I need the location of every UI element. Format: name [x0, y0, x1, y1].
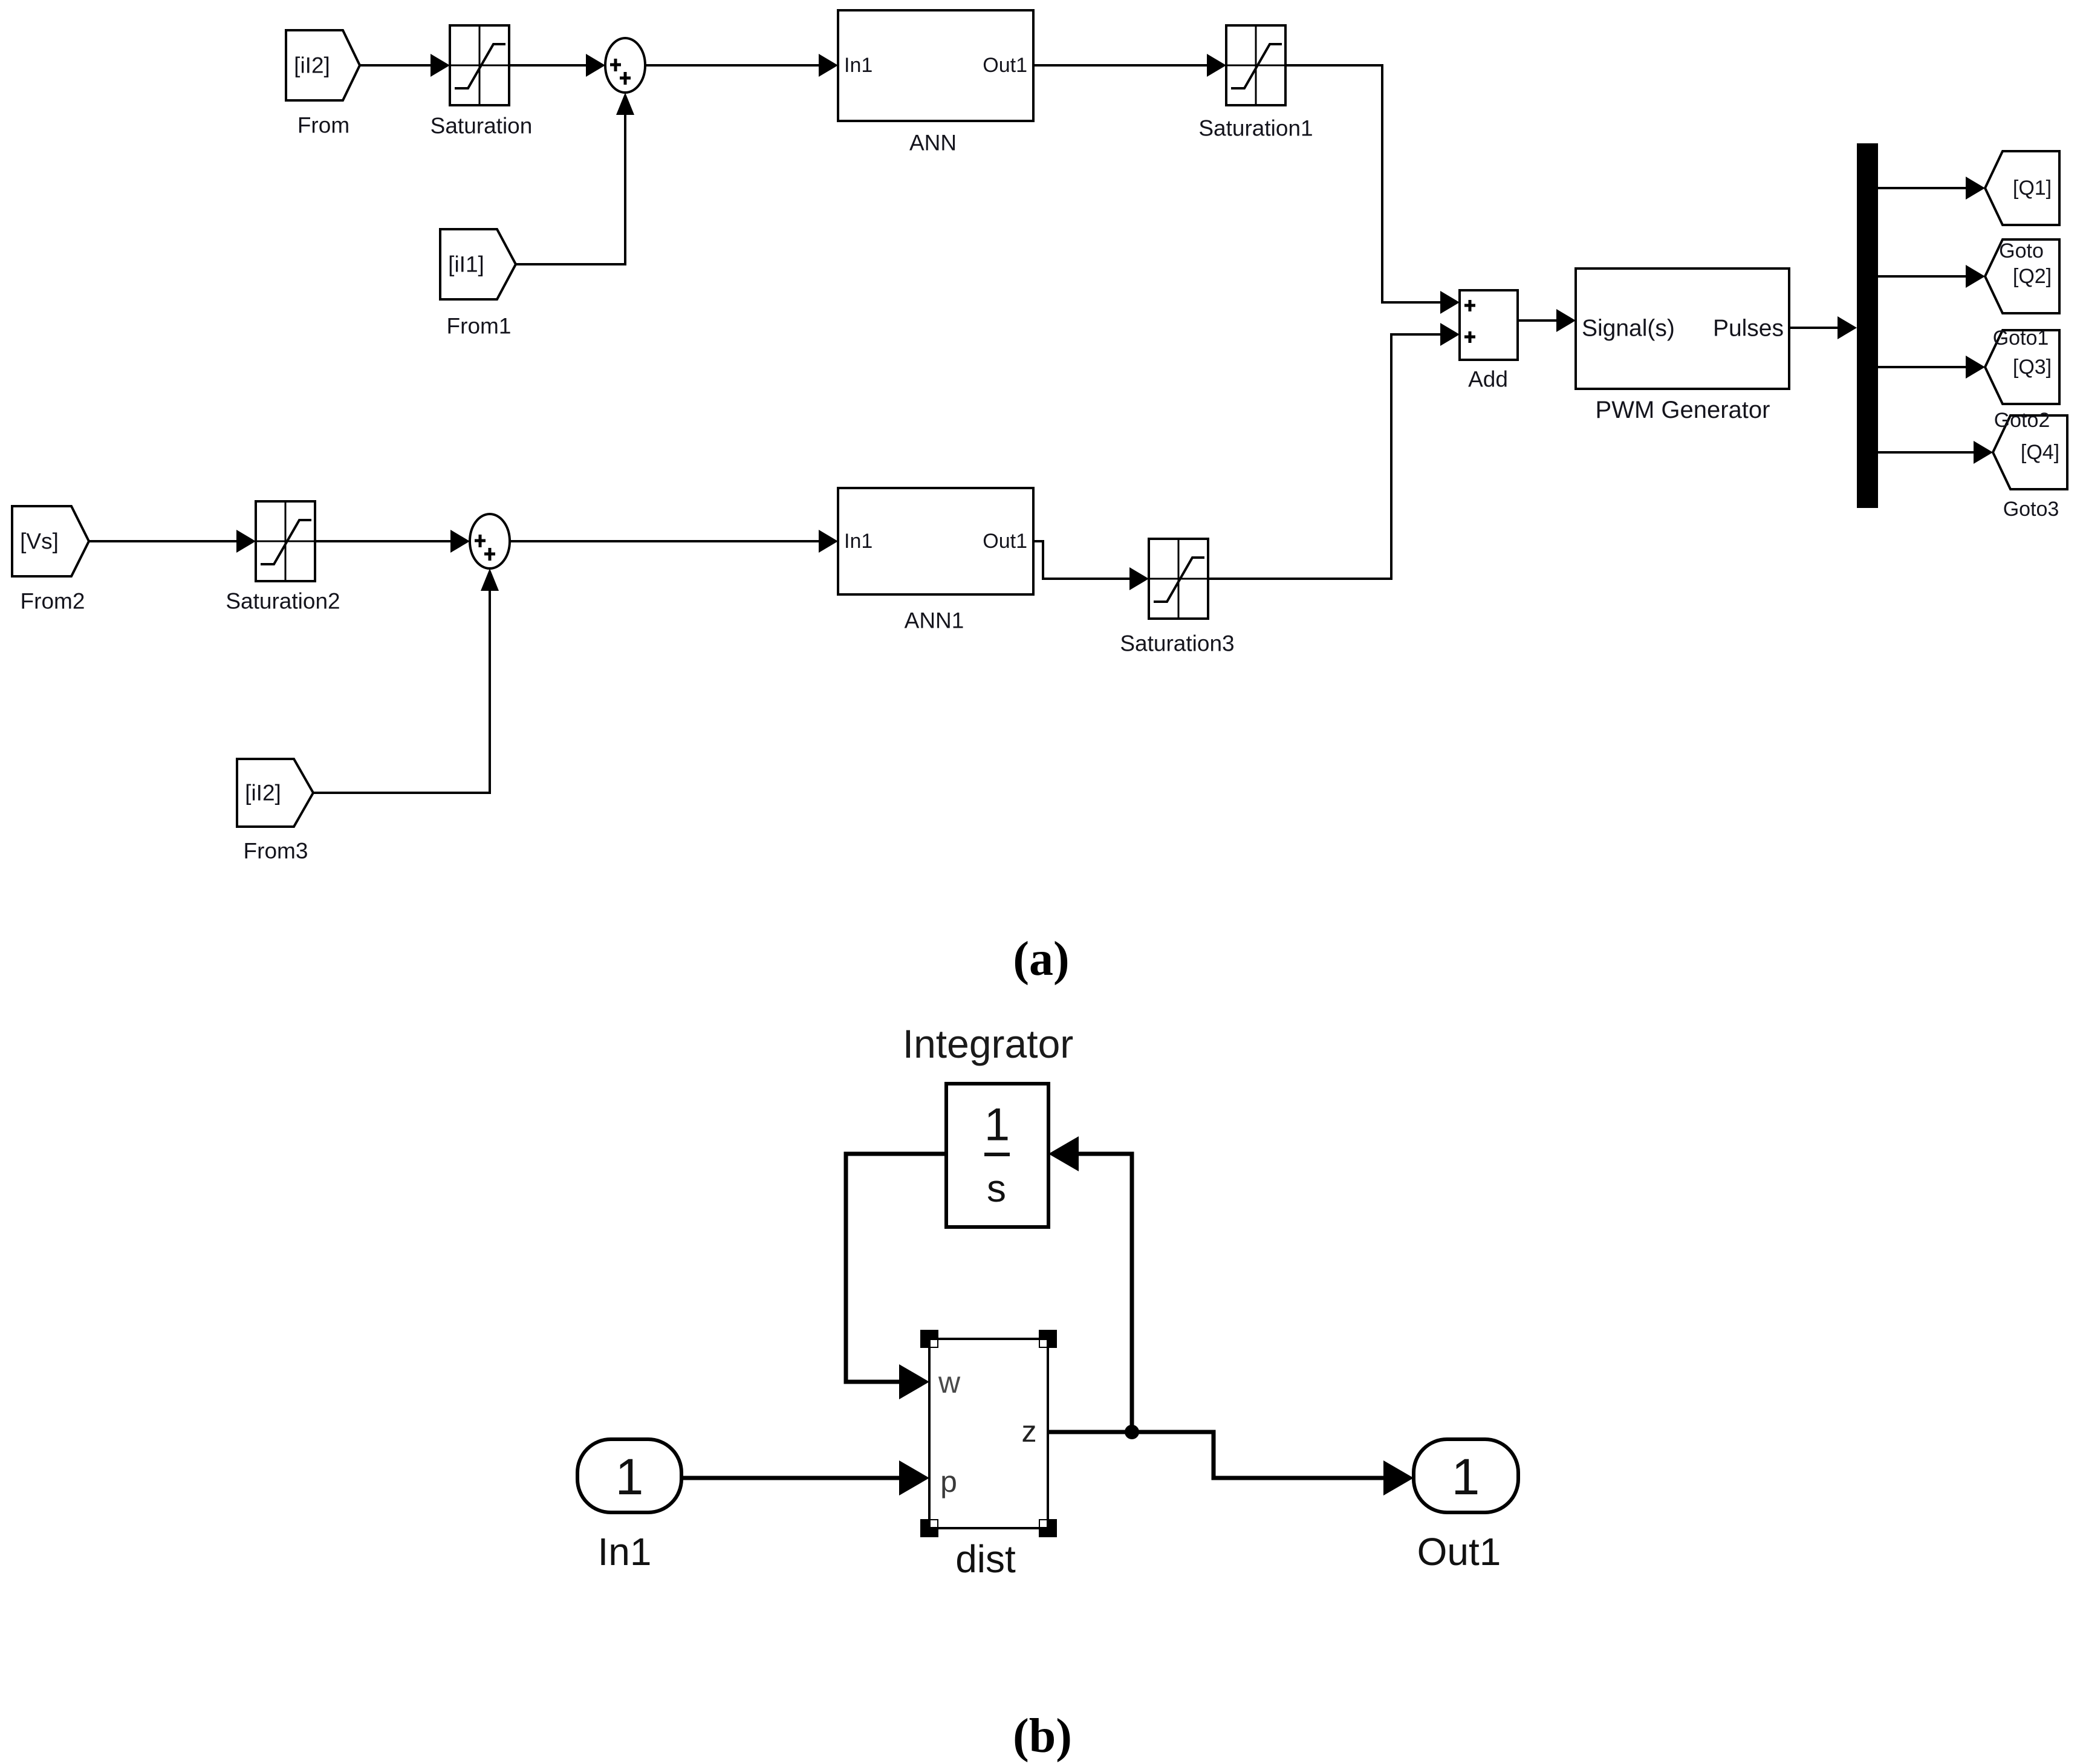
- svg-text:1: 1: [616, 1448, 644, 1505]
- svg-text:dist: dist: [955, 1537, 1016, 1581]
- svg-text:ANN1: ANN1: [905, 608, 964, 633]
- svg-text:[Q3]: [Q3]: [2013, 356, 2052, 379]
- svg-text:Add: Add: [1468, 367, 1508, 392]
- svg-text:ANN: ANN: [909, 131, 957, 155]
- svg-text:[Q1]: [Q1]: [2013, 177, 2052, 200]
- svg-text:Saturation1: Saturation1: [1198, 116, 1313, 141]
- svg-text:Out1: Out1: [983, 530, 1027, 553]
- svg-text:(a): (a): [1013, 932, 1069, 986]
- svg-text:Out1: Out1: [983, 54, 1027, 77]
- svg-text:Goto2: Goto2: [1994, 409, 2050, 432]
- svg-text:1: 1: [1452, 1448, 1480, 1505]
- svg-text:From: From: [297, 113, 349, 138]
- svg-text:[Vs]: [Vs]: [20, 529, 59, 554]
- svg-text:From1: From1: [447, 314, 512, 339]
- svg-text:Saturation2: Saturation2: [226, 589, 340, 614]
- svg-text:p: p: [940, 1465, 957, 1499]
- svg-text:Saturation3: Saturation3: [1120, 631, 1234, 656]
- svg-text:[iI2]: [iI2]: [294, 53, 330, 78]
- svg-text:[iI1]: [iI1]: [448, 252, 484, 277]
- svg-text:Goto1: Goto1: [1993, 327, 2049, 350]
- svg-text:Integrator: Integrator: [903, 1021, 1074, 1066]
- svg-text:PWM Generator: PWM Generator: [1596, 397, 1770, 423]
- svg-text:s: s: [987, 1167, 1006, 1210]
- svg-text:Pulses: Pulses: [1713, 316, 1784, 342]
- svg-text:In1: In1: [844, 530, 873, 553]
- svg-text:w: w: [938, 1365, 961, 1399]
- svg-text:Goto: Goto: [1999, 239, 2044, 262]
- svg-text:In1: In1: [844, 54, 873, 77]
- svg-text:Goto3: Goto3: [2003, 498, 2059, 521]
- svg-text:z: z: [1022, 1414, 1037, 1448]
- svg-text:[Q4]: [Q4]: [2021, 441, 2059, 464]
- svg-text:Out1: Out1: [1417, 1530, 1501, 1574]
- svg-text:(b): (b): [1013, 1710, 1072, 1763]
- svg-text:1: 1: [984, 1099, 1010, 1151]
- svg-text:From3: From3: [244, 839, 308, 864]
- svg-text:In1: In1: [598, 1530, 652, 1574]
- svg-text:Signal(s): Signal(s): [1582, 316, 1675, 342]
- svg-text:[Q2]: [Q2]: [2013, 265, 2052, 288]
- svg-text:[iI2]: [iI2]: [245, 781, 281, 806]
- svg-text:Saturation: Saturation: [431, 114, 533, 138]
- svg-text:From2: From2: [21, 589, 85, 614]
